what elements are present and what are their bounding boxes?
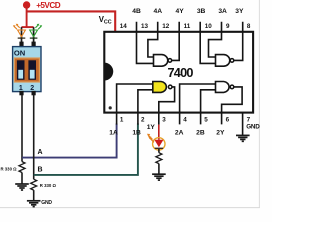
DIP switch pin pads bottom xyxy=(19,91,23,95)
svg-text:ON: ON xyxy=(14,48,25,57)
ground below R2 xyxy=(27,201,41,207)
svg-text:A: A xyxy=(38,149,43,156)
svg-text:1Y: 1Y xyxy=(147,124,156,131)
frame bottom border xyxy=(0,207,260,209)
svg-text:11: 11 xyxy=(184,23,191,30)
resistor R2 xyxy=(31,179,37,190)
wire gate2 output to pin 6 xyxy=(222,87,243,125)
svg-text:3Y: 3Y xyxy=(235,8,244,15)
gate U1A bubble xyxy=(168,85,172,89)
wire pin 9 to gate3 input A xyxy=(209,22,222,57)
svg-text:2Y: 2Y xyxy=(216,129,225,136)
wire pin 13 to gate4 input B xyxy=(137,22,154,64)
wire pin 1 to gate1 input A xyxy=(117,84,153,125)
wire A node A to IC pin 1 xyxy=(22,124,117,158)
op gate U1C nand xyxy=(216,55,230,67)
svg-text:7: 7 xyxy=(247,116,251,123)
svg-text:5: 5 xyxy=(204,116,208,123)
wire pin 2 to gate1 input B xyxy=(138,90,153,125)
svg-text:9: 9 xyxy=(226,23,230,30)
wire gate3 output to pin 8 xyxy=(234,22,243,61)
svg-text:3B: 3B xyxy=(197,8,206,15)
DIP switch knob 2 xyxy=(30,70,35,79)
wire R3 to ground xyxy=(158,164,160,175)
DIP switch orange block xyxy=(14,58,39,82)
svg-text:GND: GND xyxy=(246,124,260,131)
LED D3 ring xyxy=(153,138,165,150)
LED D2 cathode bar xyxy=(30,37,38,39)
svg-text:GND: GND xyxy=(41,200,52,206)
wire gate1 output to pin 3 xyxy=(159,87,175,125)
LED D3 cathode bar xyxy=(155,147,163,149)
svg-text:2: 2 xyxy=(141,116,145,123)
resistor R3 xyxy=(156,153,162,164)
gate U1C bubble xyxy=(230,59,234,63)
wire gate4 output to pin 11 xyxy=(172,22,180,61)
ground below R3 xyxy=(152,174,166,180)
wire LED D3 to R3 xyxy=(158,149,160,153)
svg-text:12: 12 xyxy=(162,23,170,30)
svg-text:4: 4 xyxy=(183,116,187,123)
wire R2 to ground xyxy=(33,190,35,201)
ground below R1 xyxy=(15,184,29,190)
LED D1 cathode bar xyxy=(18,37,26,39)
svg-text:2A: 2A xyxy=(175,129,184,136)
LED D3 anode stub xyxy=(158,138,160,140)
wire pin 3 red segment to LED D3 xyxy=(158,125,160,140)
svg-text:B: B xyxy=(38,166,43,173)
svg-text:R 330 Ω: R 330 Ω xyxy=(40,183,57,188)
wire switch pin2 down to node B and R2 xyxy=(33,95,35,179)
DIP switch knob 1 xyxy=(18,70,23,79)
wire LED D2 column xyxy=(33,27,35,42)
resistor R1 xyxy=(19,162,25,173)
svg-text:6: 6 xyxy=(226,116,230,123)
svg-text:13: 13 xyxy=(141,23,149,30)
LED D2 (green) xyxy=(30,24,43,37)
svg-text:+5VCD: +5VCD xyxy=(36,1,61,10)
op gate U1D nand xyxy=(154,55,168,67)
svg-text:R 330 Ω: R 330 Ω xyxy=(1,167,18,172)
op gate U1A nand (active, yellow) xyxy=(153,82,167,93)
wire pin 5 to gate2 input B xyxy=(201,90,216,125)
svg-text:1B: 1B xyxy=(132,129,141,136)
gate U1D bubble xyxy=(168,59,172,63)
LED D1 (orange) xyxy=(13,24,26,37)
svg-text:10: 10 xyxy=(205,23,213,30)
wire LED D1 column xyxy=(21,27,23,42)
svg-text:3A: 3A xyxy=(218,8,227,15)
wire pin 10 to gate3 input B xyxy=(200,22,215,64)
gate U1B bubble xyxy=(230,85,234,89)
ground at IC pin 7 xyxy=(236,135,250,141)
DIP switch slot 1 xyxy=(17,60,25,80)
wire +5V dot down to LED splitter xyxy=(26,5,28,27)
svg-text:7400: 7400 xyxy=(168,66,194,80)
wire LED splitter bar xyxy=(22,26,34,28)
op gate U1B nand xyxy=(216,82,230,93)
svg-text:4Y: 4Y xyxy=(176,8,185,15)
DIP switch S1 pin pads top xyxy=(19,42,23,47)
svg-text:8: 8 xyxy=(247,23,251,30)
IC notch xyxy=(104,63,113,81)
node +5V junction dot xyxy=(23,1,30,8)
svg-text:14: 14 xyxy=(120,23,128,30)
svg-text:1A: 1A xyxy=(109,129,118,136)
frame right border xyxy=(258,0,260,208)
svg-text:2B: 2B xyxy=(196,129,205,136)
IC U1 7400 body xyxy=(104,32,253,113)
DIP switch S1 body xyxy=(13,47,41,92)
wire B node B to IC pin 2 xyxy=(34,124,138,175)
LED D3 light arrows xyxy=(147,134,154,143)
wire pin 4 to gate2 input A xyxy=(180,84,216,124)
svg-text:1: 1 xyxy=(120,116,124,123)
wire R1 to ground xyxy=(21,173,23,185)
DIP switch slot 2 xyxy=(28,60,36,80)
svg-text:3: 3 xyxy=(162,116,166,123)
IC pin1 marker dot xyxy=(109,106,112,109)
wire pin 12 to gate4 input A xyxy=(148,22,158,57)
svg-text:4B: 4B xyxy=(132,8,141,15)
wire switch pin1 down to node A and R1 xyxy=(21,95,23,162)
LED D3 triangle xyxy=(154,140,163,147)
svg-text:4A: 4A xyxy=(154,8,163,15)
wire +5V rail to IC pin 14 xyxy=(27,11,116,31)
wire pin 7 stub to ground xyxy=(242,113,244,136)
